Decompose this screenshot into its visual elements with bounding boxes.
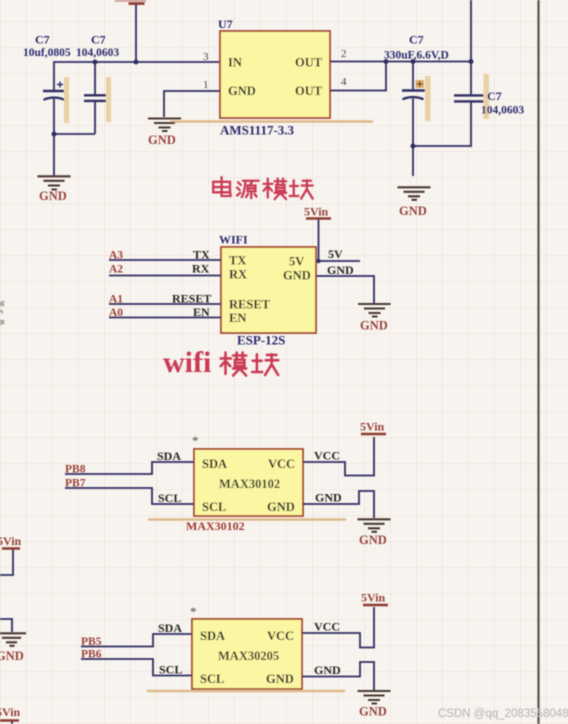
svg-text:104,0603: 104,0603	[481, 105, 524, 117]
title 电源模块	[213, 177, 312, 199]
ground GND (wifi)	[358, 304, 391, 333]
svg-text:RX: RX	[229, 268, 247, 282]
svg-text:A2: A2	[109, 264, 123, 276]
wire 5Vin left	[0, 550, 13, 576]
svg-text:MAX30102: MAX30102	[219, 477, 280, 491]
svg-text:2: 2	[341, 48, 347, 60]
ground GND (30205)	[358, 691, 391, 719]
svg-text:U7: U7	[218, 17, 233, 31]
wire pin 4 riser	[330, 62, 386, 91]
sheet border	[537, 0, 539, 724]
svg-text:IN: IN	[228, 56, 242, 70]
op-amp MAX30102 box	[194, 449, 303, 516]
wire VCC to 5Vin (30205)	[302, 607, 374, 648]
svg-text:5V: 5V	[328, 247, 343, 261]
svg-text:GND: GND	[399, 204, 427, 218]
svg-text:VCC: VCC	[314, 620, 340, 634]
svg-text:SDA: SDA	[158, 621, 182, 635]
wire right cap top	[470, 62, 472, 96]
tan underline MAX30205	[147, 690, 345, 692]
tan underline AMS1117	[170, 120, 373, 122]
svg-text:10uf,0805: 10uf,0805	[23, 47, 71, 59]
svg-text:PB6: PB6	[81, 649, 102, 661]
svg-text:PB5: PB5	[81, 636, 102, 648]
svg-text:4: 4	[341, 76, 347, 88]
svg-text:TX: TX	[193, 248, 210, 262]
svg-text:RESET: RESET	[229, 298, 271, 312]
wire right cap bottom tie	[413, 101, 471, 146]
power port 5Vin (bottom left cut)	[0, 705, 21, 721]
svg-text:1: 1	[203, 79, 209, 91]
svg-text:*: *	[192, 433, 199, 448]
svg-text:GND: GND	[283, 269, 311, 283]
svg-text:5Vin: 5Vin	[360, 420, 385, 434]
wire GND down (30205)	[302, 662, 374, 690]
svg-text:SDA: SDA	[202, 457, 227, 471]
svg-text:GND: GND	[360, 319, 388, 333]
svg-text:5V: 5V	[289, 255, 304, 269]
title wifi模块	[163, 346, 278, 379]
svg-text:EN: EN	[229, 311, 246, 325]
wire 5Vin down to 5V	[318, 220, 320, 262]
ground GND (pin 1)	[148, 119, 181, 148]
svg-text:SDA: SDA	[157, 449, 181, 463]
capacitor C7 330uF,6.6V,D	[402, 76, 431, 121]
svg-text:GND: GND	[228, 84, 256, 98]
svg-text:GND: GND	[266, 672, 294, 686]
node junction caps bottom	[52, 132, 57, 137]
capacitor C7 10uf,0805	[43, 77, 69, 123]
svg-text:C7: C7	[91, 33, 106, 47]
svg-text:104,0603: 104,0603	[76, 47, 119, 59]
svg-text:OUT: OUT	[295, 56, 323, 70]
svg-text:VCC: VCC	[268, 457, 295, 471]
svg-text:SDA: SDA	[200, 629, 225, 643]
power port 5Vin top (cut off)	[115, 0, 146, 4]
capacitor C7 104,0603 right	[454, 74, 489, 119]
svg-text:GND: GND	[359, 705, 387, 719]
ground GND (right caps)	[398, 187, 431, 218]
node junction right rail	[469, 59, 474, 64]
wire GND left	[0, 619, 12, 632]
op-amp WIFI module box	[221, 247, 316, 333]
wire GND net	[316, 276, 374, 303]
svg-text:SCL: SCL	[202, 500, 226, 514]
svg-text:*: *	[190, 604, 197, 619]
wire net PB7	[65, 488, 194, 504]
wire net PB6	[81, 659, 192, 676]
ground GND (left cut)	[0, 633, 26, 663]
svg-text:ESP-12S: ESP-12S	[237, 333, 285, 348]
svg-text:RX: RX	[192, 262, 210, 276]
node junction cap 330uF	[411, 59, 416, 64]
wire VCC to 5Vin (30102)	[303, 437, 374, 476]
wire cap1 bottom	[53, 99, 55, 134]
svg-text:TX: TX	[229, 254, 246, 268]
power port 5Vin (30205)	[361, 591, 388, 606]
svg-text:C7: C7	[409, 33, 424, 47]
node junction C2 top	[93, 60, 98, 65]
svg-text:RESET: RESET	[172, 292, 211, 306]
wire net A1 RESET	[109, 303, 221, 305]
tan underline MAX30102	[148, 518, 346, 520]
svg-text:C7: C7	[487, 89, 502, 103]
svg-text:AMS1117-3.3: AMS1117-3.3	[220, 123, 295, 138]
svg-text:C7: C7	[35, 33, 50, 47]
svg-text:5Vin: 5Vin	[304, 205, 329, 219]
watermark fragment left	[0, 301, 4, 325]
svg-text:GND: GND	[267, 500, 295, 514]
power port 5Vin (30102)	[360, 420, 386, 435]
svg-text:A3: A3	[109, 250, 123, 262]
power port 5Vin (left cut)	[0, 534, 22, 549]
wire net A0 EN	[109, 317, 221, 319]
svg-text:PB7: PB7	[65, 478, 86, 490]
wire cap 330uF bottom	[412, 99, 414, 177]
svg-text:OUT: OUT	[295, 84, 323, 98]
wire main bus to pin 3	[54, 62, 220, 91]
op-amp MAX30205 box	[192, 619, 302, 689]
svg-text:GND: GND	[359, 533, 387, 547]
svg-text:5Vin: 5Vin	[0, 705, 21, 719]
node junction 5V	[316, 259, 320, 263]
svg-text:GND: GND	[148, 133, 176, 147]
svg-text:EN: EN	[193, 305, 210, 319]
wire cap2 bottom	[94, 101, 96, 134]
wire 3.3V rail up (cut off)	[470, 0, 472, 62]
wire pin 1 to ground	[164, 91, 220, 117]
wire net PB5	[81, 634, 192, 647]
svg-text:WIFI: WIFI	[219, 233, 248, 247]
node junction bottom right	[411, 144, 416, 149]
ground GND (30102)	[358, 519, 391, 547]
wire 5Vin to bus	[135, 4, 137, 62]
svg-text:CSDN @qq_2083558048: CSDN @qq_2083558048	[438, 708, 568, 720]
wire pin 2 output bus	[330, 61, 471, 63]
svg-text:GND: GND	[315, 491, 342, 505]
wire bottom tie	[54, 134, 95, 176]
svg-text:SCL: SCL	[159, 663, 182, 677]
svg-text:MAX30205: MAX30205	[218, 649, 279, 663]
svg-text:VCC: VCC	[314, 449, 340, 463]
wire net PB8	[65, 462, 194, 474]
ground GND (left caps)	[38, 176, 71, 203]
svg-text:5Vin: 5Vin	[361, 591, 386, 605]
svg-text:VCC: VCC	[267, 629, 294, 643]
wire 5Vin bottom left	[11, 722, 13, 724]
svg-text:A1: A1	[109, 294, 123, 306]
svg-text:A0: A0	[109, 307, 123, 319]
svg-text:GND: GND	[314, 663, 341, 677]
svg-text:330uF,6.6V,D: 330uF,6.6V,D	[384, 50, 449, 62]
svg-text:GND: GND	[0, 649, 24, 663]
svg-text:MAX30102: MAX30102	[186, 519, 245, 533]
svg-text:3: 3	[203, 51, 209, 63]
wire GND down (30102)	[303, 491, 374, 518]
wire net A3 TX	[109, 259, 221, 261]
wire cap2 top	[94, 62, 96, 95]
capacitor C7 104,0603	[84, 77, 111, 122]
op-amp U7 regulator box	[220, 31, 330, 118]
svg-text:SCL: SCL	[158, 491, 181, 505]
wire net A2 RX	[109, 275, 221, 277]
svg-text:PB8: PB8	[65, 464, 86, 476]
power port 5Vin (wifi)	[304, 205, 331, 219]
svg-text:GND: GND	[327, 263, 354, 277]
wire 5V net	[316, 260, 360, 262]
node junction power drop	[134, 60, 139, 65]
svg-text:GND: GND	[39, 189, 67, 203]
svg-text:wifi: wifi	[163, 346, 211, 379]
svg-text:5Vin: 5Vin	[0, 534, 22, 548]
svg-text:SCL: SCL	[200, 672, 224, 686]
node junction pin4	[384, 59, 389, 64]
wire to cap 330uF	[412, 62, 414, 91]
